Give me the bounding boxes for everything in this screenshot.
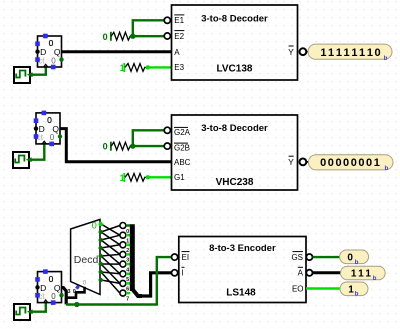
svg-text:EI: EI <box>182 253 190 262</box>
pin A label <box>174 48 180 57</box>
wire clock2 to counter CTR2 clock input <box>26 144 45 162</box>
svg-text:A: A <box>174 48 180 57</box>
svg-text:3-to-8 Decoder: 3-to-8 Decoder <box>201 123 268 134</box>
svg-text:7: 7 <box>126 296 129 302</box>
counter CTR1 <box>35 34 64 70</box>
svg-text:5: 5 <box>126 277 129 283</box>
pin Y1 label <box>288 46 294 57</box>
svg-text:Decd: Decd <box>74 254 99 266</box>
svg-text:E2: E2 <box>174 32 184 41</box>
svg-text:00000001: 00000001 <box>320 157 380 169</box>
svg-text:G1: G1 <box>174 173 185 182</box>
wire clock1 to counter CTR1 clock input <box>27 67 46 77</box>
svg-text:Y: Y <box>288 47 294 57</box>
probe P2 value 00000001 <box>308 155 393 173</box>
svg-text:0: 0 <box>49 38 54 48</box>
wire CTR2 Q bus to decoder U2 input ABC <box>60 129 172 162</box>
resistor R1 value 0 <box>103 32 136 42</box>
svg-text:11111110: 11111110 <box>320 47 380 59</box>
resistor R4 value 1 <box>120 173 150 183</box>
svg-text:0: 0 <box>103 32 108 42</box>
svg-text:0: 0 <box>103 142 108 152</box>
svg-text:3-to-8 Decoder: 3-to-8 Decoder <box>201 13 268 24</box>
svg-text:2: 2 <box>126 248 129 254</box>
svg-text:0: 0 <box>51 56 56 65</box>
pin G2A label <box>164 127 190 137</box>
IC U1 3-to-8 decoder LVC138 <box>172 5 298 80</box>
wire lattice DECD outputs to inverters <box>101 224 120 293</box>
pin EO label <box>292 284 304 293</box>
wire splitter bus to encoder I <box>140 273 171 296</box>
svg-text:1: 1 <box>348 284 354 295</box>
svg-text:b: b <box>373 276 377 282</box>
clock CLK3 <box>14 304 30 320</box>
node DECD output pins <box>99 222 103 282</box>
wire CTR3 to encoder EI <box>66 257 171 307</box>
IC U3 8-to-3 encoder LS148 <box>179 237 306 303</box>
wire A to probe <box>313 271 341 274</box>
pin E3 label <box>174 63 184 72</box>
pin G1 label <box>174 173 185 182</box>
svg-text:8-to-3 Encoder: 8-to-3 Encoder <box>209 243 276 254</box>
wire R1 to E1 and E2 bubbles <box>133 20 164 36</box>
probe P4 value 111 <box>341 266 386 282</box>
wire bus staircase to DECD selector <box>66 287 84 298</box>
svg-text:111: 111 <box>351 269 372 280</box>
svg-text:A: A <box>298 269 304 278</box>
svg-text:0: 0 <box>83 279 87 286</box>
counter CTR2 <box>34 111 63 147</box>
svg-text:E3: E3 <box>174 63 184 72</box>
clock CLK2 <box>13 152 29 168</box>
svg-text:LS148: LS148 <box>226 288 256 299</box>
resistor R3 value 0 <box>103 142 136 152</box>
svg-text:E1: E1 <box>174 16 184 25</box>
pin E1 label <box>164 15 184 25</box>
svg-text:LVC138: LVC138 <box>217 64 253 75</box>
inverter bubbles row <box>120 223 126 297</box>
probe P3 value 0 <box>340 250 369 266</box>
svg-text:G2A: G2A <box>174 128 191 137</box>
counter CTR3 <box>35 269 64 305</box>
pin GS label <box>291 252 312 262</box>
wire R2 to E3 <box>148 66 172 68</box>
pin I label <box>172 267 185 277</box>
wire CTR1 Q bus to decoder U1 input A <box>62 50 172 53</box>
pin G2B label <box>164 143 190 153</box>
pin Y2 label <box>288 156 294 167</box>
svg-text:1: 1 <box>126 238 129 244</box>
svg-text:EO: EO <box>292 284 304 293</box>
svg-text:6: 6 <box>126 287 129 293</box>
svg-text:3: 3 <box>68 289 71 295</box>
svg-text:0: 0 <box>47 115 52 125</box>
svg-text:b: b <box>355 260 359 266</box>
svg-text:VHC238: VHC238 <box>216 177 254 188</box>
resistor R2 value 1 <box>120 63 150 73</box>
pin A2 label <box>298 267 313 277</box>
probe P5 value 1 <box>340 282 368 298</box>
svg-text:b: b <box>385 166 389 172</box>
svg-text:0: 0 <box>49 274 54 284</box>
wire R3 to G2A and G2B bubbles <box>133 130 164 146</box>
svg-text:0: 0 <box>50 133 55 142</box>
svg-text:G2B: G2B <box>174 144 190 153</box>
svg-text:0: 0 <box>73 289 76 295</box>
clock CLK1 <box>14 67 30 83</box>
wire clock3 to counter CTR3 clock input <box>27 303 46 314</box>
wire R4 to G1 <box>148 176 172 178</box>
pin ABC label <box>174 158 191 167</box>
decoder DECD trapezoid <box>71 219 100 294</box>
wire EO to probe <box>306 287 341 289</box>
wire inverter stubs to splitter <box>126 226 130 294</box>
wire CTR3 Q bus down <box>62 288 67 305</box>
svg-text:3: 3 <box>126 258 129 264</box>
svg-text:0: 0 <box>347 253 353 264</box>
wire GS to probe <box>313 256 340 258</box>
svg-text:0: 0 <box>51 292 56 301</box>
svg-text:b: b <box>355 292 359 298</box>
node Y1 bubble <box>300 48 309 55</box>
svg-text:b: b <box>384 56 388 62</box>
pin E2 label <box>164 31 184 41</box>
probe P1 value 11111110 <box>308 44 392 62</box>
svg-text:GS: GS <box>291 253 303 262</box>
node Y2 bubble <box>300 159 309 166</box>
svg-text:0: 0 <box>92 220 97 230</box>
svg-text:I: I <box>182 269 184 278</box>
IC U2 3-to-8 decoder VHC238 <box>172 115 298 190</box>
pin EI label <box>172 252 190 262</box>
svg-text:ABC: ABC <box>174 158 191 167</box>
svg-text:0: 0 <box>126 229 129 235</box>
splitter bar S1 <box>126 224 142 302</box>
node DECD selector marks <box>75 279 86 289</box>
svg-text:Y: Y <box>288 157 294 167</box>
